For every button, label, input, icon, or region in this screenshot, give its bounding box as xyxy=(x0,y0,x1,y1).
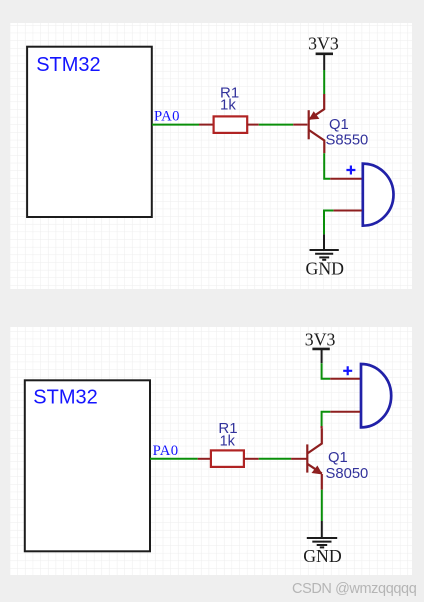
wire GND stub (black, sheet 2) xyxy=(321,521,323,538)
resistor R1 right pin (sheet 2) xyxy=(244,458,259,460)
STM32 MCU box (sheet 1) xyxy=(27,47,152,217)
STM32 MCU box (sheet 2) xyxy=(25,380,150,551)
transistor Q1 emitter arrow (PNP, points to base) xyxy=(309,111,320,120)
schematic sheet 2 (bottom panel with grid) xyxy=(10,327,412,575)
svg-text:PA0: PA0 xyxy=(153,443,179,459)
transistor Q1 emitter lead (sheet 2) xyxy=(321,474,323,490)
resistor R1 left pin (sheet 2) xyxy=(198,458,211,460)
wire 3V3 bar down (black stub) xyxy=(323,54,325,70)
ground symbol GND (sheet 1) xyxy=(310,250,339,260)
svg-text:S8550: S8550 xyxy=(326,133,369,149)
svg-text:Q1: Q1 xyxy=(329,117,349,133)
svg-text:CSDN @wmzqqqqq: CSDN @wmzqqqqq xyxy=(292,581,417,597)
svg-text:1k: 1k xyxy=(220,434,236,450)
svg-text:PA0: PA0 xyxy=(154,108,180,124)
transistor Q1 base pin (sheet 2) xyxy=(291,458,306,460)
schematic sheet 1 (top panel with grid) xyxy=(10,23,412,289)
buzzer LS1 body (sheet 1) xyxy=(363,164,394,226)
wire collector down (green) xyxy=(324,153,330,179)
svg-text:STM32: STM32 xyxy=(36,54,100,76)
transistor Q1 S8550 body: base bar xyxy=(308,110,310,139)
resistor R1 body (sheet 1) xyxy=(214,116,248,132)
resistor R1 left pin (sheet 1) xyxy=(199,124,214,126)
resistor R1 right pin (sheet 1) xyxy=(247,124,259,126)
transistor Q1 emitter diagonal (bottom, sheet 2) xyxy=(308,464,322,474)
svg-text:3V3: 3V3 xyxy=(308,33,339,53)
svg-text:3V3: 3V3 xyxy=(305,330,336,350)
transistor Q1 emitter arrow (NPN, points outward) xyxy=(312,466,323,475)
buzzer LS1 plus pin (sheet 2) xyxy=(330,378,360,380)
transistor Q1 collector diagonal + lead (top, sheet 2) xyxy=(308,428,322,453)
svg-text:GND: GND xyxy=(306,259,345,279)
wire 3V3 bar down (black stub, sheet 2) xyxy=(321,349,323,363)
transistor Q1 collector diagonal + lead (bottom) xyxy=(309,130,324,153)
transistor Q1 base pin (sheet 1) xyxy=(293,124,307,126)
wire emitter to GND (green, sheet 2) xyxy=(321,490,323,521)
transistor Q1 emitter diagonal + lead (top) xyxy=(309,94,324,119)
ground symbol GND (sheet 2) xyxy=(307,538,337,547)
svg-text:Q1: Q1 xyxy=(328,450,348,466)
svg-text:S8050: S8050 xyxy=(326,466,369,482)
wire collector upper lead (dark red, sheet 2) xyxy=(321,426,323,428)
svg-text:GND: GND xyxy=(303,546,342,566)
buzzer LS1 minus pin (sheet 2) xyxy=(330,411,360,413)
buzzer LS1 plus sign (sheet 2) xyxy=(343,366,352,375)
wire buzzer minus to GND (green) xyxy=(324,211,333,235)
wire GND stub (black) xyxy=(323,234,325,249)
power symbol 3V3 bar (sheet 1) xyxy=(316,52,333,55)
svg-text:1k: 1k xyxy=(220,97,236,114)
wire resistor to transistor base (green) xyxy=(259,124,293,126)
buzzer LS1 minus pin (sheet 1) xyxy=(333,210,361,212)
resistor R1 body (sheet 2) xyxy=(211,450,244,467)
wire 3V3 to emitter (green) xyxy=(323,70,325,94)
wire buzzer minus to collector (green, sheet 2) xyxy=(322,412,331,426)
wire PA0 net: box to resistor (green) xyxy=(152,124,199,126)
transistor Q1 S8050 body: base bar xyxy=(306,444,308,472)
buzzer LS1 plus sign (sheet 1) xyxy=(346,166,355,175)
wire 3V3 to buzzer (green, sheet 2) xyxy=(322,363,331,379)
power symbol 3V3 bar (sheet 2) xyxy=(312,348,329,351)
svg-text:STM32: STM32 xyxy=(33,387,97,409)
wire resistor to transistor base (green, sheet 2) xyxy=(259,458,291,460)
buzzer LS1 plus pin (sheet 1) xyxy=(330,178,362,180)
buzzer LS1 body (sheet 2) xyxy=(361,364,391,427)
wire PA0 net: box to resistor (green, sheet 2) xyxy=(150,458,198,460)
